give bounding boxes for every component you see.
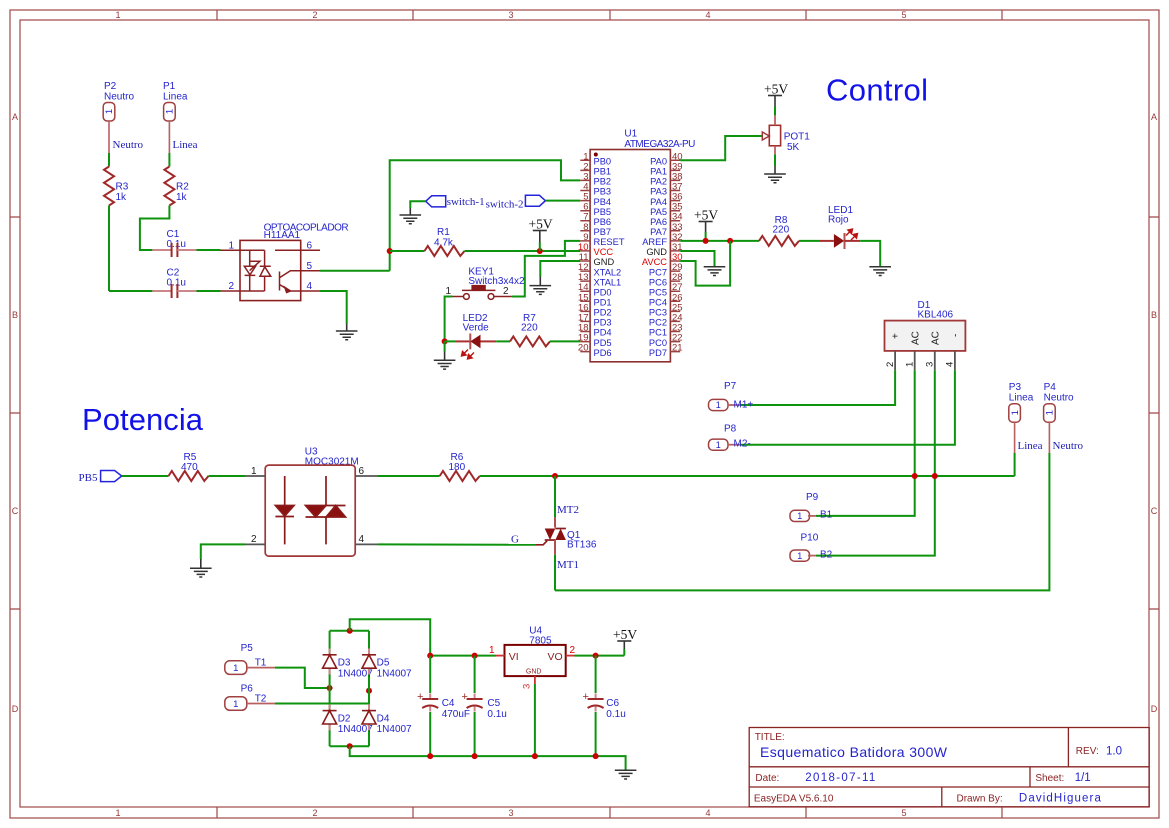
svg-text:Date:: Date: [755,773,779,784]
svg-text:GND: GND [646,247,667,257]
svg-text:PA1: PA1 [650,167,667,177]
IC U1 ATMEGA32A-PU [578,129,695,362]
wire R7 to PD5 pin19 [550,340,580,342]
svg-text:P5: P5 [241,643,254,654]
svg-text:H11AA1: H11AA1 [264,230,301,241]
svg-text:GND: GND [594,257,615,267]
svg-text:P6: P6 [241,684,254,695]
ground under POT1 [774,154,776,166]
svg-text:switch-1: switch-1 [447,196,485,208]
wire R3 to C2 [108,206,110,292]
svg-text:2: 2 [228,281,234,292]
svg-text:2: 2 [570,645,576,656]
svg-text:2: 2 [885,362,896,367]
wire bridge left column [329,631,331,747]
net flag switch-2 [486,195,581,210]
svg-text:3: 3 [508,10,513,20]
svg-text:D: D [12,704,19,714]
svg-text:PC6: PC6 [649,277,667,287]
svg-text:D2: D2 [338,714,351,725]
connector P9 [790,492,833,522]
svg-text:M2-: M2- [734,439,751,450]
svg-text:PA7: PA7 [650,227,667,237]
svg-text:Control: Control [826,73,928,108]
+5V flag above POT1 [764,82,788,116]
svg-text:M1+: M1+ [734,400,754,411]
junction bridge left mid [327,685,333,691]
svg-text:MT2: MT2 [557,504,579,516]
svg-text:6: 6 [359,466,365,477]
svg-text:R1: R1 [437,227,450,238]
svg-text:PB1: PB1 [594,167,612,177]
svg-text:0.1u: 0.1u [167,239,186,250]
svg-text:P3: P3 [1009,382,1022,393]
resistor R1 [390,227,465,256]
connector P4 [1044,382,1074,453]
junction AVCC riser [727,238,733,244]
svg-text:DavidHiguera: DavidHiguera [1019,793,1102,805]
wire opto pin4 to ground [320,291,347,324]
svg-text:0.1u: 0.1u [167,278,186,289]
svg-text:PA5: PA5 [650,207,667,217]
svg-text:5K: 5K [787,142,800,153]
wire U4 GND to bottom row [534,684,536,756]
svg-text:1.0: 1.0 [1106,746,1122,758]
svg-text:PC3: PC3 [649,308,667,318]
wire VO row [575,655,625,657]
svg-text:4: 4 [307,281,313,292]
junction C6 top [593,653,599,659]
svg-text:-: - [950,334,961,337]
svg-text:5: 5 [901,808,906,818]
connector P7 [709,381,754,411]
wire GND pin11 to ground [540,261,580,277]
svg-text:Verde: Verde [463,323,490,334]
junction bridge top [347,628,353,634]
svg-text:Drawn By:: Drawn By: [957,794,1003,805]
svg-text:PA3: PA3 [650,187,667,197]
svg-text:PC5: PC5 [649,287,667,297]
svg-text:P8: P8 [724,424,737,435]
wire U3 pin2 to ground [201,544,245,559]
+5V flag at VO [613,627,637,656]
LED1 Rojo [820,205,860,249]
wire R1 to VCC pin10 [465,250,581,252]
svg-text:0.1u: 0.1u [606,709,625,720]
title block [749,728,1149,807]
resistor R7 [496,313,550,346]
svg-text:4.7k: 4.7k [434,238,454,249]
wire opto pin5 to node [320,270,390,272]
ground at U3 pin2 [200,559,202,568]
svg-text:T1: T1 [255,658,267,669]
connector P2 [103,81,134,153]
svg-text:A: A [12,112,18,122]
svg-text:P7: P7 [724,381,737,392]
svg-text:Linea: Linea [163,92,188,103]
resistor R5 [169,452,209,481]
ground under LED2 [444,341,446,351]
capacitor C6 [583,656,626,757]
wire main power row [480,475,1015,477]
wire T1 to bridge left mid [275,668,330,688]
wire R8 to LED1 [799,240,820,242]
svg-text:PC0: PC0 [649,338,667,348]
svg-text:Linea: Linea [1018,440,1043,452]
diode D3 [323,649,374,680]
+5V flag on AREF row [694,208,718,241]
svg-text:1: 1 [251,466,257,477]
svg-text:D: D [1151,704,1158,714]
svg-text:5: 5 [307,261,313,272]
svg-text:PB0: PB0 [594,157,612,167]
svg-text:TITLE:: TITLE: [755,732,785,743]
wire P3 to main row [1014,453,1016,476]
potentiometer POT1 [762,115,810,154]
wire KEY1 pin1 to LED2 node [445,297,453,342]
svg-text:C4: C4 [442,698,455,709]
svg-text:1: 1 [489,645,495,656]
svg-text:+: + [583,691,589,703]
wire bridge top row [330,630,369,632]
svg-text:+5V: +5V [613,627,637,642]
svg-text:PA4: PA4 [650,197,667,207]
resistor R2 [164,167,189,206]
connector P3 [1009,382,1034,453]
ground at LED1 [869,267,891,276]
svg-text:PD7: PD7 [649,348,667,358]
svg-text:XTAL2: XTAL2 [594,267,622,277]
svg-text:MT1: MT1 [557,559,579,571]
svg-text:Linea: Linea [173,139,198,151]
svg-text:PC7: PC7 [649,267,667,277]
junction C5 top [472,653,478,659]
svg-text:PB2: PB2 [594,177,612,187]
svg-text:20: 20 [578,343,589,354]
svg-text:+5V: +5V [764,82,788,97]
svg-text:AC: AC [930,331,941,345]
svg-text:Neutro: Neutro [1053,440,1084,452]
svg-text:ATMEGA32A-PU: ATMEGA32A-PU [624,139,695,150]
svg-text:+5V: +5V [694,208,718,223]
svg-text:PA6: PA6 [650,217,667,227]
svg-text:XTAL1: XTAL1 [594,277,622,287]
svg-text:6: 6 [307,241,313,252]
resistor R3 [104,167,129,206]
wire T2 to bridge right mid [275,691,369,704]
wire C2 to opto pin2 [196,290,220,292]
svg-text:21: 21 [672,343,683,354]
capacitor C2 [152,268,196,299]
connector P1 [163,81,188,153]
svg-text:C: C [12,506,19,516]
svg-text:B: B [1151,310,1157,320]
connector P10 [790,533,833,562]
svg-text:1N4007: 1N4007 [377,669,412,680]
svg-text:PC4: PC4 [649,298,667,308]
svg-text:PB4: PB4 [594,197,612,207]
wire D1 pin1 to B1 [816,370,915,516]
svg-text:PA2: PA2 [650,177,667,187]
svg-text:A: A [1151,112,1157,122]
svg-text:PD2: PD2 [594,308,612,318]
svg-text:3: 3 [508,808,513,818]
svg-text:C5: C5 [487,698,500,709]
svg-text:PB5: PB5 [79,472,98,484]
junction C4 top [427,653,433,659]
ground at opto pin4 [346,324,348,332]
svg-text:+: + [891,333,902,339]
junction B2 crossing [932,473,938,479]
svg-text:EasyEDA V5.6.10: EasyEDA V5.6.10 [754,794,834,805]
wire PA0 to POT1 wiper [680,136,762,160]
ground at PSU [615,770,637,779]
svg-text:0.1u: 0.1u [487,709,506,720]
svg-text:+: + [417,691,423,703]
ground at pin31 [704,267,726,276]
svg-text:KBL406: KBL406 [918,310,954,321]
svg-text:PA0: PA0 [650,157,667,167]
wire LED1 to ground [860,241,880,267]
junction C4 bottom [427,753,433,759]
svg-text:1N4007: 1N4007 [338,724,373,735]
svg-text:VI: VI [509,651,519,663]
wire bridge plus to VI [350,619,431,655]
svg-text:R3: R3 [116,182,129,193]
wire C1 to opto pin1 [196,249,220,251]
wire bottom ground row [350,746,626,770]
svg-text:1k: 1k [176,192,188,203]
svg-text:1: 1 [115,808,120,818]
wire D1 pin3 to B2 [816,370,935,555]
svg-text:1/1: 1/1 [1075,772,1091,784]
wire node riser [390,160,581,270]
svg-text:B: B [12,310,18,320]
svg-text:2: 2 [251,534,257,545]
junction LED2 node [442,338,448,344]
wire R2 to C1 [140,206,170,251]
svg-text:220: 220 [521,323,538,334]
wire P1 to R2 [168,153,170,167]
capacitor C1 [152,229,196,257]
svg-text:4: 4 [359,534,365,545]
svg-text:Sheet:: Sheet: [1035,773,1064,784]
svg-text:R2: R2 [176,182,189,193]
optocoupler H11AA1 [221,223,349,301]
svg-text:1: 1 [228,241,234,252]
svg-text:PD3: PD3 [594,318,612,328]
svg-text:3: 3 [522,684,533,689]
junction C5 bottom [472,753,478,759]
svg-text:PC1: PC1 [649,328,667,338]
svg-text:220: 220 [773,225,790,236]
svg-text:PB3: PB3 [594,187,612,197]
wire GND pin31 to ground [680,251,714,267]
svg-text:2: 2 [312,10,317,20]
svg-text:2: 2 [312,808,317,818]
wire KEY1 to RESET pin9 [512,241,580,297]
junction U4 GND bottom [532,753,538,759]
svg-text:PD6: PD6 [594,348,612,358]
svg-text:+: + [462,691,468,703]
svg-text:BT136: BT136 [567,540,597,551]
svg-text:PB6: PB6 [594,217,612,227]
wire U3 pin4 to gate [378,543,535,545]
svg-text:1: 1 [445,286,451,297]
wire bridge right column [368,631,370,747]
wire P4 down to bottom row [555,453,1049,590]
junction bridge right mid [366,688,372,694]
bridge rectifier D1 KBL406 [885,300,966,370]
diode D2 [323,704,374,735]
wire PB5 to R5 [122,475,169,477]
svg-text:Neutro: Neutro [104,92,134,103]
svg-text:1: 1 [904,362,915,367]
svg-text:AC: AC [910,331,921,345]
svg-text:POT1: POT1 [784,132,811,143]
capacitor C5 [462,656,507,757]
svg-text:1N4007: 1N4007 [338,669,373,680]
svg-text:1: 1 [115,10,120,20]
junction MT2 [552,473,558,479]
diode D4 [362,704,412,735]
regulator U4 7805 [489,626,576,690]
wire AVCC loop [680,241,730,286]
svg-text:P9: P9 [806,492,819,503]
svg-text:PD5: PD5 [594,338,612,348]
ground at pin11 [539,277,541,286]
svg-text:Potencia: Potencia [82,402,204,437]
junction node R1 [387,248,393,254]
svg-text:PD1: PD1 [594,298,612,308]
connector P5 [225,643,275,674]
connector P8 [709,424,751,451]
svg-text:RESET: RESET [594,237,625,247]
svg-text:P4: P4 [1044,382,1057,393]
junction +5V AREF [703,238,709,244]
svg-text:1k: 1k [116,192,128,203]
junction bridge bottom [347,743,353,749]
svg-text:VO: VO [548,651,563,663]
net flag switch-1 [400,196,485,224]
svg-text:PB5: PB5 [594,207,612,217]
svg-text:B2: B2 [820,550,833,561]
svg-text:P1: P1 [163,81,176,92]
svg-text:B1: B1 [820,510,833,521]
connector P6 [225,684,275,711]
svg-text:4: 4 [705,808,710,818]
svg-text:AREF: AREF [642,237,667,247]
svg-text:PB7: PB7 [594,227,612,237]
svg-text:4: 4 [945,362,956,367]
wire U3 pin6 to R6 [378,475,440,477]
svg-text:3: 3 [925,362,936,367]
junction +5V node [537,248,543,254]
diode D5 [362,649,412,680]
optotriac U3 MOC3021M [245,447,378,557]
wire P2 to R3 [108,153,110,167]
wire R5 to U3 pin1 [209,475,246,477]
LED2 Verde [445,313,497,359]
svg-text:Linea: Linea [1009,393,1034,404]
svg-text:1N4007: 1N4007 [377,724,412,735]
resistor R8 [759,215,799,246]
svg-text:P2: P2 [104,81,117,92]
svg-text:C6: C6 [606,698,619,709]
wire MT1 down [554,555,556,591]
svg-text:Esquematico Batidora 300W: Esquematico Batidora 300W [760,744,948,760]
svg-text:GND: GND [526,669,542,676]
svg-text:switch-2: switch-2 [486,199,524,211]
svg-text:+5V: +5V [529,217,553,232]
svg-text:470uF: 470uF [442,709,470,720]
wire VI row [430,655,496,657]
svg-text:D4: D4 [377,714,390,725]
svg-text:D5: D5 [377,658,390,669]
wire bridge bottom row [330,745,369,747]
svg-text:PD4: PD4 [594,328,612,338]
junction B1 crossing [912,473,918,479]
svg-text:C: C [1151,506,1158,516]
svg-text:T2: T2 [255,694,267,705]
svg-text:Rojo: Rojo [828,215,849,226]
svg-text:PD0: PD0 [594,287,612,297]
svg-text:REV:: REV: [1076,746,1099,757]
triac Q1 BT136 [535,517,597,555]
svg-text:U1: U1 [624,129,637,140]
svg-text:Neutro: Neutro [1044,393,1074,404]
junction C6 bottom [593,753,599,759]
svg-text:5: 5 [901,10,906,20]
wire MT2 [554,476,556,517]
+5V flag near VCC [529,217,553,252]
resistor R6 [440,452,480,481]
capacitor C4 [417,656,470,757]
svg-text:2: 2 [503,286,509,297]
wire D1 pin4 to M2- [740,370,955,445]
wire AREF row [680,240,759,242]
key KEY1 [445,267,525,300]
wire D1 pin2 to M1+ [740,370,895,405]
svg-text:G: G [511,534,519,546]
svg-text:D3: D3 [338,658,351,669]
svg-text:4: 4 [705,10,710,20]
svg-text:AVCC: AVCC [642,257,667,267]
svg-text:PC2: PC2 [649,318,667,328]
svg-text:VCC: VCC [594,247,614,257]
svg-text:P10: P10 [801,533,819,544]
svg-text:Neutro: Neutro [113,139,144,151]
net flag PB5 [79,471,122,485]
